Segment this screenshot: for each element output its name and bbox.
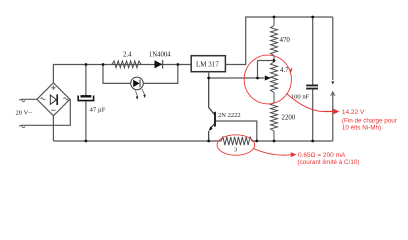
wire base to sense node [216, 121, 257, 141]
LED arrow 2 [142, 89, 145, 95]
node gnd-base [255, 140, 258, 143]
node rail-470 [273, 16, 276, 19]
bridge plus sign [51, 86, 56, 91]
wire pot top node horizontal [258, 60, 275, 62]
svg-text:47 µF: 47 µF [90, 107, 106, 114]
wire AC input top [21, 98, 37, 100]
annotation leader sense [254, 149, 291, 156]
wire adj to wiper [209, 77, 265, 79]
node rail-LED-left [102, 63, 105, 66]
annotation leader pot [287, 94, 326, 112]
svg-text:(courant limité à C/10): (courant limité à C/10) [298, 159, 360, 166]
svg-text:1N4004: 1N4004 [149, 52, 172, 59]
wire bridge bottom to ground rail [52, 116, 54, 141]
node gnd-emitter [207, 140, 210, 143]
capacitor C2 100nF leads [312, 17, 314, 141]
svg-text:2N 2222: 2N 2222 [218, 112, 241, 119]
node adj-wiper [256, 77, 259, 80]
wire LED branch left [103, 65, 131, 84]
node pot-top [273, 59, 276, 62]
op-amp U1 LM317 box [191, 56, 225, 72]
wire LED branch right [143, 65, 178, 84]
bridge tilde left [41, 98, 46, 100]
bridge rectifier diamond [37, 83, 70, 116]
wire AC input bottom [21, 99, 71, 125]
node gnd-2200 [273, 140, 276, 143]
resistor R4 2200 [271, 103, 278, 142]
transistor Q1 base bar [214, 112, 216, 127]
svg-text:(Fin de charge pour: (Fin de charge pour [342, 118, 397, 125]
potentiometer wiper arrow [265, 75, 271, 80]
bridge minus sign [51, 109, 55, 111]
resistor R2 470 [271, 17, 278, 61]
bridge inner diode [50, 95, 56, 104]
capacitor C1 47uF top lead [85, 65, 87, 97]
wire bridge top to rail [53, 65, 191, 83]
svg-text:14.22 V: 14.22 V [342, 109, 365, 116]
annotation arrow 14.22V [325, 111, 335, 113]
AC squiggle bottom [19, 125, 25, 128]
transistor Q1 emitter [209, 124, 215, 141]
output terminal up arrow [332, 92, 334, 141]
LED D2 triangle and bar [133, 80, 139, 87]
LED D2 circle [131, 77, 144, 90]
resistor R1 2.4 [112, 61, 141, 68]
svg-text:3: 3 [234, 147, 237, 154]
wire wiper vertical from pot top node [257, 61, 259, 79]
AC squiggle top [19, 99, 25, 102]
bridge tilde right [64, 98, 69, 100]
node rail-100nF [311, 16, 314, 19]
node gnd-100nF [311, 140, 314, 143]
capacitor C1 plate bar [81, 95, 92, 97]
diode D1 1N4004 [155, 60, 163, 68]
node gnd-cap47 [85, 140, 88, 143]
transistor Q1 collector [209, 78, 215, 114]
wire LM317 adj down [208, 72, 210, 78]
annotation arrow 0.65 [291, 152, 297, 157]
node rail-LED-right [176, 63, 179, 66]
svg-text:20 V~: 20 V~ [16, 110, 33, 117]
annotation red check 4.7 [290, 68, 292, 72]
node rail-cap47 [85, 63, 88, 66]
LED arrow 1 [135, 91, 137, 97]
wire bottom rail [53, 140, 332, 142]
node adj-junction [207, 77, 210, 80]
output terminal down arrow [332, 17, 334, 80]
svg-text:LM 317: LM 317 [196, 61, 219, 69]
capacitor C1 cup [78, 96, 93, 101]
svg-text:470: 470 [280, 37, 291, 44]
svg-text:4.7: 4.7 [280, 67, 289, 74]
annotation ellipse pot [244, 55, 291, 104]
annotation ellipse sense resistor [217, 135, 255, 155]
resistor R5 sense 0.65 [221, 137, 252, 145]
wire LM317 out to top rail [226, 17, 333, 65]
svg-text:10 élts Ni-Mh): 10 élts Ni-Mh) [342, 125, 381, 132]
transistor Q1 emitter arrow [209, 126, 213, 131]
svg-text:2.4: 2.4 [123, 52, 132, 59]
potentiometer R3 4.7 [271, 61, 278, 103]
capacitor C1 bottom lead [85, 101, 87, 141]
svg-text:0.65Ω = 200 mA: 0.65Ω = 200 mA [298, 152, 346, 159]
capacitor C2 plates [306, 85, 318, 88]
svg-text:2200: 2200 [282, 115, 296, 122]
